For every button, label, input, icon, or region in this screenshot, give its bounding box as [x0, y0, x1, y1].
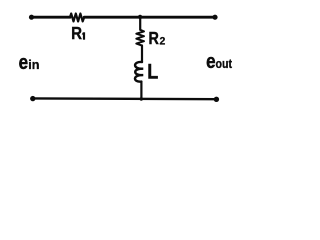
- svg-text:R: R: [149, 29, 160, 49]
- node input bottom terminal: [30, 96, 35, 101]
- label e_out: [206, 50, 232, 73]
- wire shunt middle: [141, 46, 143, 62]
- node output top terminal: [212, 15, 217, 20]
- svg-text:R: R: [71, 23, 82, 44]
- label R1: [71, 23, 85, 44]
- inductor L: [135, 62, 143, 82]
- svg-text:out: out: [216, 57, 233, 71]
- node input top terminal: [29, 15, 34, 20]
- svg-text:L: L: [147, 60, 158, 84]
- wire shunt upper: [139, 17, 141, 30]
- label L: [147, 60, 158, 84]
- wire shunt lower: [140, 82, 142, 99]
- svg-text:in: in: [28, 57, 39, 72]
- node top junction: [138, 15, 142, 19]
- svg-text:2: 2: [160, 35, 166, 47]
- resistor R2: [136, 30, 144, 46]
- svg-text:e: e: [19, 51, 28, 74]
- node output bottom terminal: [214, 97, 219, 102]
- label R2: [149, 29, 166, 49]
- svg-text:e: e: [206, 50, 215, 73]
- wire top-left segment: [32, 16, 71, 19]
- wire bottom: [33, 97, 217, 100]
- node bottom junction: [140, 97, 143, 100]
- resistor R1: [70, 14, 84, 22]
- wire top-right segment: [84, 16, 215, 19]
- label e_in: [19, 51, 40, 74]
